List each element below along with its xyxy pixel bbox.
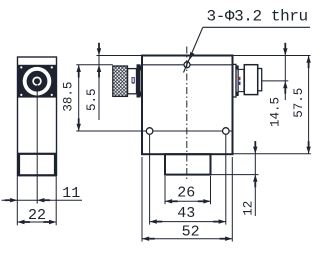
svg-text:57.5: 57.5 [292, 88, 306, 118]
svg-text:3-Φ3.2 thru: 3-Φ3.2 thru [207, 7, 308, 25]
svg-text:11: 11 [62, 185, 80, 202]
svg-text:22: 22 [28, 207, 46, 224]
svg-text:52: 52 [182, 223, 200, 240]
svg-text:43: 43 [177, 205, 195, 222]
svg-text:5.5: 5.5 [85, 88, 99, 111]
svg-text:38.5: 38.5 [62, 82, 76, 112]
svg-text:26: 26 [177, 185, 195, 202]
svg-text:14.5: 14.5 [269, 97, 283, 127]
svg-text:12: 12 [242, 201, 256, 216]
